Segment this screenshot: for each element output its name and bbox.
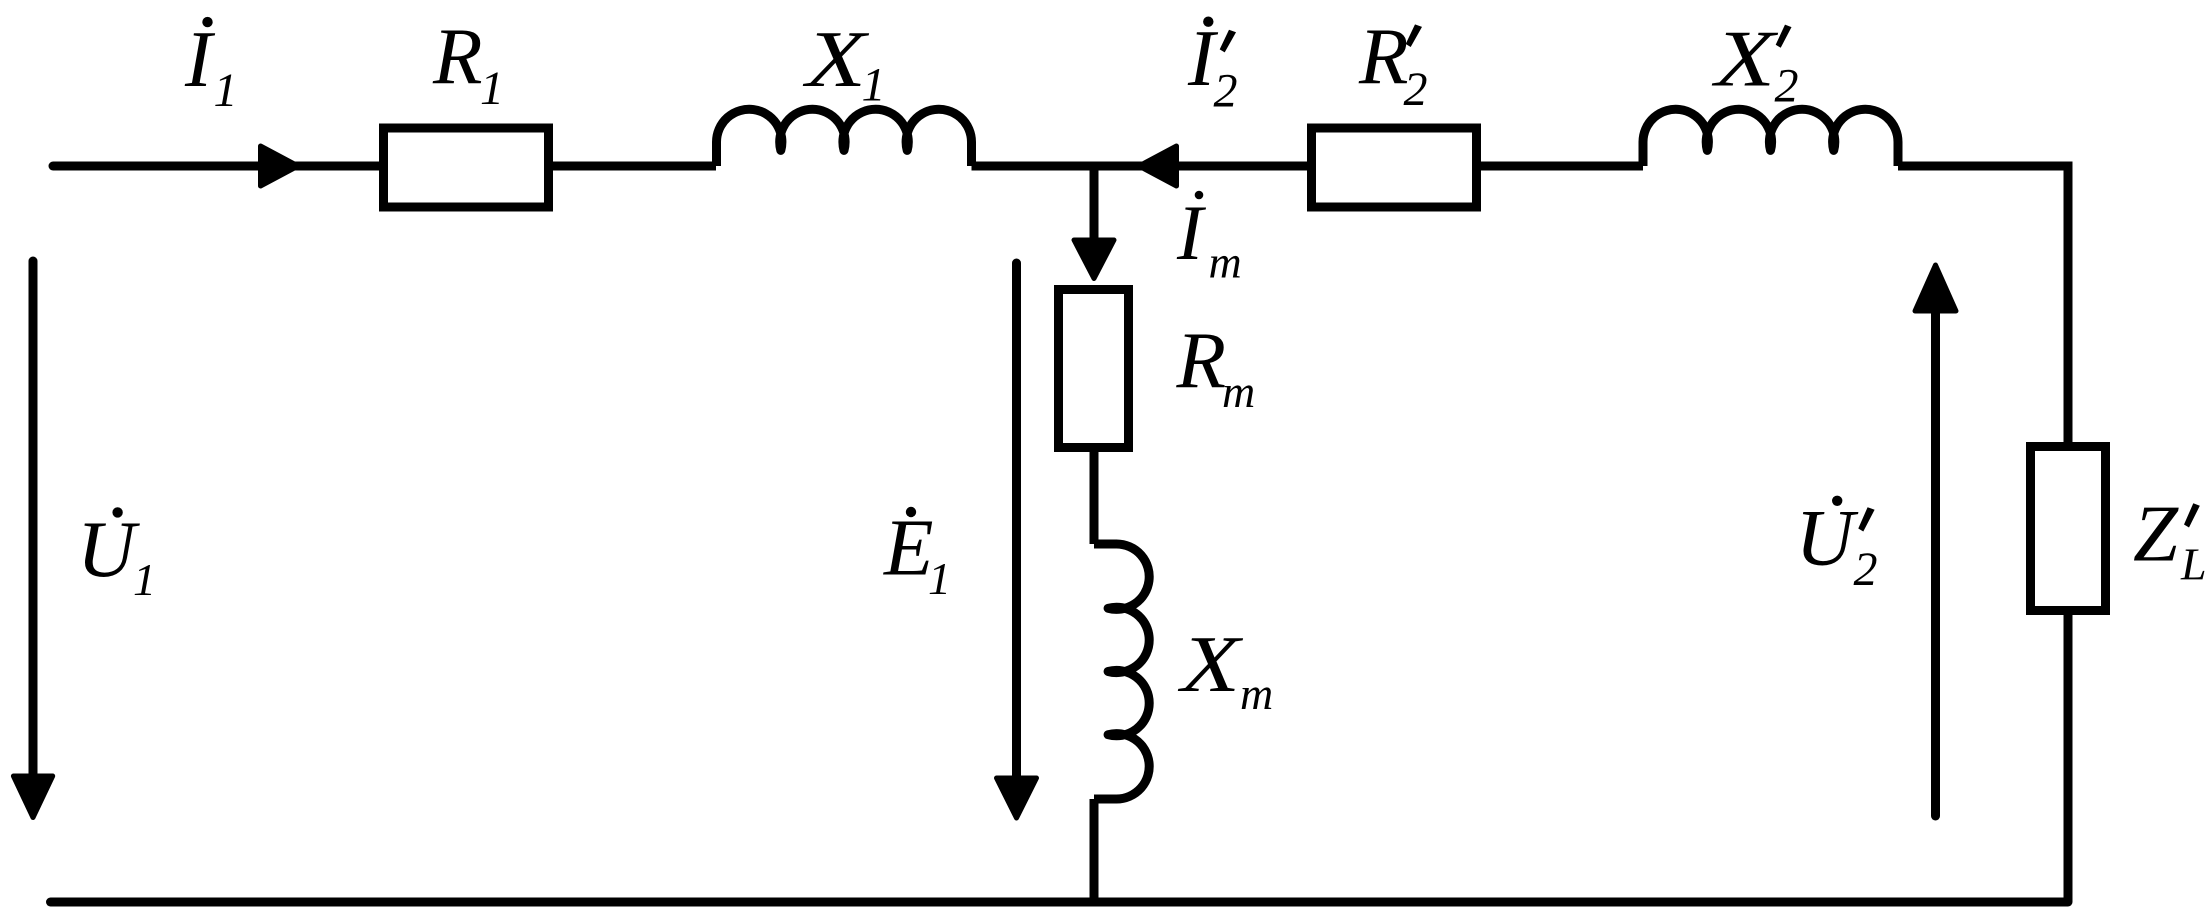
svg-text:U: U [1796, 493, 1859, 583]
svg-text:m: m [1222, 366, 1255, 417]
svg-text:m: m [1209, 237, 1242, 288]
wire node T down to Im arrow [1090, 166, 1099, 240]
wire X2' to top-right corner, down right side [1898, 166, 2068, 447]
svg-text:L: L [2180, 539, 2207, 590]
wire X1 to R2' through node T [972, 162, 1308, 171]
inductor X2' [1643, 109, 1898, 166]
svg-text:2: 2 [1404, 63, 1428, 116]
wire bottom rail [51, 898, 2069, 907]
arrowhead U2' up [1915, 265, 1956, 311]
svg-text:1: 1 [480, 62, 504, 115]
svg-text:1: 1 [862, 59, 886, 112]
svg-text:Z: Z [2133, 488, 2179, 578]
svg-text:1: 1 [928, 553, 951, 604]
svg-text:I: I [184, 14, 216, 104]
svg-text:X: X [1711, 13, 1779, 103]
svg-text:2: 2 [1214, 65, 1238, 118]
svg-text:I: I [1176, 189, 1207, 276]
wire Xm to bottom rail [1090, 799, 1099, 902]
arrowhead I2' current [1139, 146, 1177, 186]
inductor Xm [1094, 544, 1149, 799]
svg-text:U: U [77, 504, 140, 594]
wire R2' to X2' [1481, 162, 1643, 171]
resistor Rm [1059, 290, 1129, 448]
svg-text:1: 1 [214, 64, 238, 117]
arrow stem E1 [1012, 263, 1021, 778]
arrowhead U1 down [13, 776, 52, 818]
svg-text:m: m [1240, 668, 1273, 719]
arrow stem U2' [1931, 311, 1940, 816]
svg-text:X: X [1177, 619, 1244, 709]
inductor X1 [717, 109, 972, 166]
svg-text:X: X [802, 14, 870, 104]
svg-text:R: R [1176, 315, 1226, 405]
svg-text:R: R [1358, 11, 1408, 101]
svg-text:2: 2 [1854, 543, 1878, 596]
resistor R2' [1312, 128, 1477, 207]
wire below ZL' to bottom [2064, 611, 2073, 903]
svg-text:2: 2 [1775, 59, 1799, 112]
arrowhead Im current down [1074, 240, 1114, 279]
arrowhead E1 down [997, 778, 1037, 818]
svg-text:1: 1 [133, 554, 156, 605]
wire Rm to Xm [1090, 452, 1099, 544]
svg-text:R: R [432, 11, 482, 101]
resistor R1 [384, 128, 549, 207]
wire R1 to X1 [553, 162, 716, 171]
load ZL' [2031, 447, 2106, 611]
arrow stem U1 [29, 261, 38, 776]
arrowhead I1 current [261, 146, 299, 186]
wire top-left [53, 162, 379, 171]
